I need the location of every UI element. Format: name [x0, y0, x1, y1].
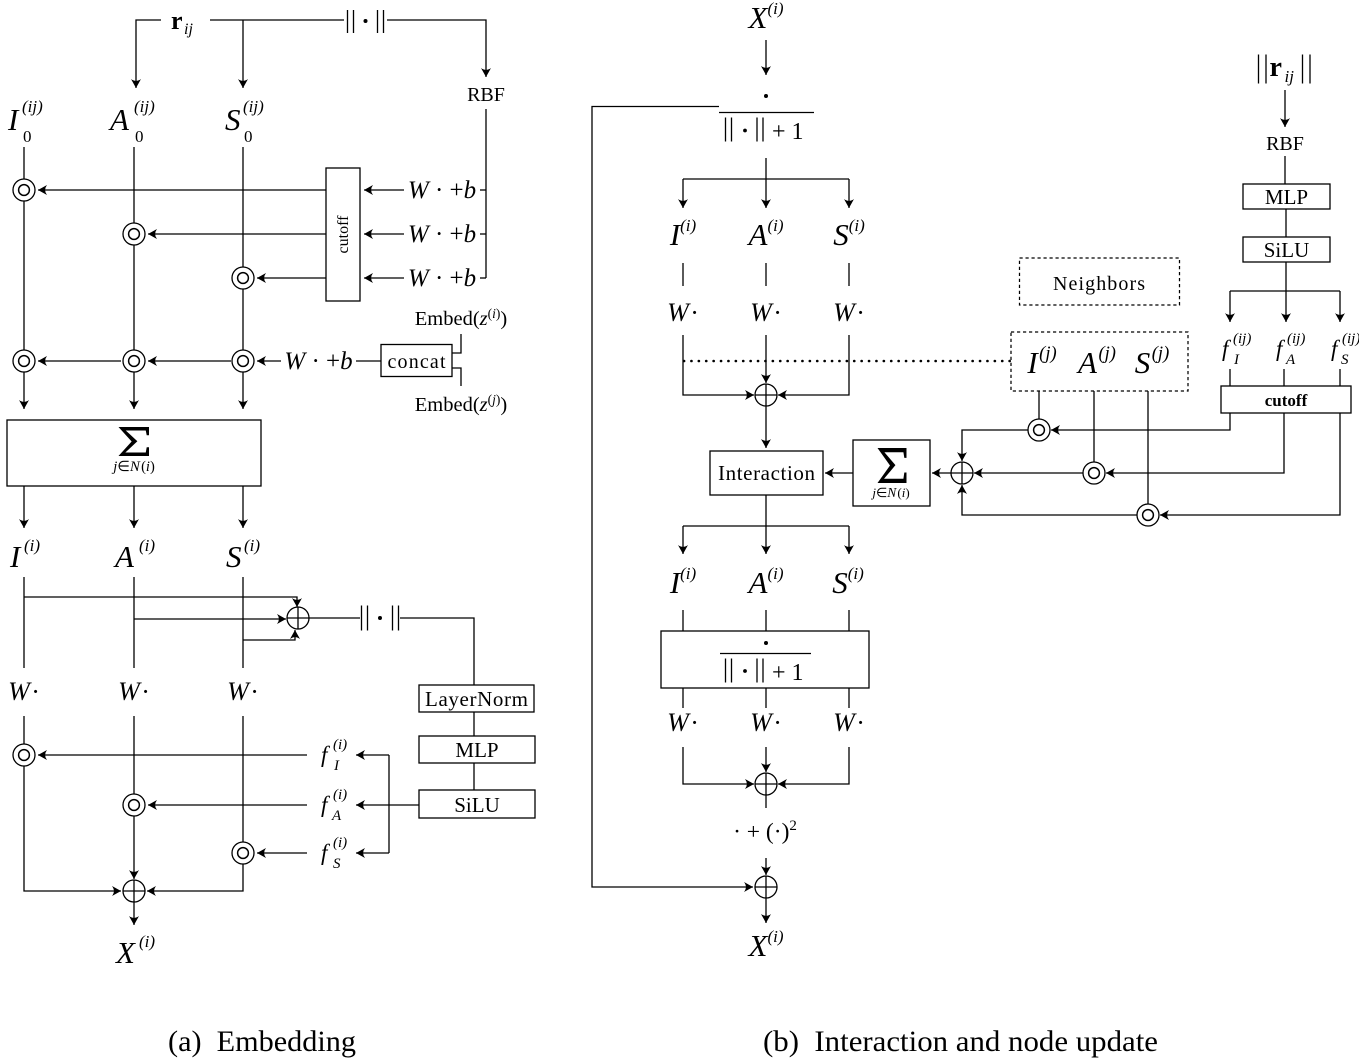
wire split2 to I: [682, 526, 684, 554]
wire cutoff to hadamard S row3: [257, 277, 326, 279]
label fI(i): [321, 737, 347, 774]
wire Wb4 to concat: [356, 360, 381, 362]
wire I b1 to plus left: [683, 335, 754, 395]
wire Wb1 to RBF line: [480, 189, 486, 191]
box LayerNorm: [419, 685, 534, 712]
box sum over neighbors: [7, 420, 261, 486]
wire Wb3 to RBF line: [480, 277, 486, 279]
wire fA to hadamard A: [148, 804, 307, 806]
plus node b1: [755, 384, 777, 406]
plus node b2: [951, 462, 973, 484]
wire cutoff gate to hadamard j3: [1160, 413, 1340, 515]
svg-text:(i): (i): [333, 737, 347, 753]
svg-text:W·: W·: [833, 708, 865, 737]
wire stub I b3: [682, 688, 684, 708]
wire feedback left long: [592, 107, 753, 888]
box cutoff: [326, 168, 360, 301]
box SiLU a: [419, 790, 535, 818]
svg-text:W·: W·: [667, 708, 699, 737]
box normalize b: [661, 631, 869, 688]
wire stub S b2: [848, 610, 850, 631]
svg-text:W·: W·: [118, 677, 150, 706]
wire S column mid: [242, 577, 244, 668]
box IAS j dashed: [1011, 332, 1188, 391]
node S0(ij) label: [225, 97, 264, 146]
wire I column bottom to plus: [24, 716, 121, 891]
wire stub I b1: [682, 263, 684, 286]
wire hadamard j2 to plus b2 right: [974, 472, 1083, 474]
svg-text:(i): (i): [244, 536, 260, 555]
fraction denominator ||.||+1: [726, 118, 764, 142]
norm symbol ||.|| mid: [362, 606, 399, 631]
box Neighbors dashed: [1020, 258, 1180, 305]
svg-text:(ij): (ij): [243, 97, 264, 116]
svg-text:0: 0: [244, 127, 253, 146]
svg-text:W·: W·: [8, 677, 40, 706]
wire r_ij to norm and RBF: [210, 19, 344, 21]
wire plus to X out: [133, 902, 135, 925]
svg-text:(ij): (ij): [22, 97, 43, 116]
wire fI to hadamard I: [38, 754, 307, 756]
svg-text:(ij): (ij): [1342, 331, 1359, 347]
label fI(ij): [1222, 331, 1251, 368]
hadamard node j2: [1083, 462, 1105, 484]
wire Wb1 to cutoff: [364, 189, 404, 191]
svg-text:SiLU: SiLU: [1264, 238, 1310, 262]
label fS(i): [321, 835, 347, 872]
dotted wire to neighbors: [684, 360, 1010, 363]
svg-text:j∈N (i): j∈N (i): [870, 485, 909, 500]
plus node bottom a: [123, 880, 145, 902]
wire S column bottom to plus: [147, 716, 243, 891]
svg-text:A: A: [331, 808, 342, 824]
wire A b1 to plus top: [765, 335, 767, 383]
plus node b4: [755, 876, 777, 898]
wire norm2 to LayerNorm: [400, 618, 474, 685]
svg-text:A: A: [1285, 352, 1296, 368]
wire split to fS: [356, 852, 389, 854]
svg-text:W·: W·: [750, 708, 782, 737]
node I0(ij) label: [7, 97, 43, 146]
svg-text:· + (·)2: · + (·)2: [733, 818, 797, 845]
box concat: [381, 345, 452, 377]
svg-text:MLP: MLP: [1265, 185, 1308, 209]
wire S b1 to plus right: [778, 335, 849, 395]
hadamard node gate I: [13, 744, 35, 766]
wire r_ij drop to S0: [242, 20, 244, 88]
wire sum to Interaction: [825, 472, 853, 474]
wire Wb2 to RBF line: [480, 233, 486, 235]
node norm r_ij label: [1259, 52, 1311, 86]
label fA(i): [321, 787, 347, 824]
svg-text:S: S: [225, 102, 241, 137]
wire stub I b2: [682, 610, 684, 631]
wire stub A b2: [765, 610, 767, 631]
hadamard node gate S: [232, 842, 254, 864]
label fA(ij): [1276, 331, 1305, 368]
svg-text:W·: W·: [750, 298, 782, 327]
box cutoff b: [1221, 386, 1351, 413]
svg-text:S: S: [226, 539, 242, 574]
node S(i) label: [226, 536, 260, 574]
wire split to I(i): [682, 179, 684, 208]
wire fraction down: [765, 158, 767, 179]
wire sum out I: [23, 486, 25, 528]
wire Ij link down: [1038, 391, 1040, 419]
svg-text:ij: ij: [1285, 67, 1295, 86]
wire stub A b1: [765, 263, 767, 286]
wire cutoff to hadamard I row1: [38, 189, 326, 191]
wire cutoff to hadamard A row2: [148, 233, 326, 235]
svg-text:W · +b: W · +b: [408, 177, 476, 204]
wire fS to hadamard S: [257, 852, 307, 854]
wire LayerNorm to MLP: [473, 712, 475, 736]
svg-text:X: X: [114, 935, 136, 970]
svg-text:0: 0: [23, 127, 32, 146]
wire X to fraction: [765, 40, 767, 75]
svg-text:Neighbors: Neighbors: [1053, 273, 1145, 295]
wire A b2 to plus3 top: [765, 747, 767, 772]
svg-text:LayerNorm: LayerNorm: [425, 687, 528, 711]
svg-text:(ij): (ij): [1287, 331, 1305, 347]
svg-text:I: I: [1233, 352, 1240, 368]
svg-text:A: A: [113, 539, 135, 574]
hadamard node row1 I: [13, 179, 35, 201]
svg-text:(i): (i): [139, 536, 155, 555]
wire I branch to plus top: [24, 597, 297, 607]
svg-text:W · +b: W · +b: [408, 221, 476, 248]
wire I b2 to plus3 left: [683, 747, 754, 784]
svg-text:I: I: [9, 539, 22, 574]
wire Wb2 to cutoff: [364, 233, 404, 235]
wire split to A(i): [765, 179, 767, 208]
wire SiLU out to split: [389, 804, 419, 806]
wire split2 to S: [848, 526, 850, 554]
hadamard node j3: [1137, 504, 1159, 526]
wire hadamard S to hadamard A row4: [148, 360, 231, 362]
wire I column to sum: [23, 147, 25, 409]
wire hadamard j3 to plus b2 bottom: [962, 485, 1137, 515]
node r_ij label: [171, 6, 193, 38]
wire stub A b3: [765, 688, 767, 708]
wire split to fS(ij): [1339, 291, 1341, 322]
wire Aj link down: [1093, 391, 1095, 462]
hadamard node row4 S: [232, 350, 254, 372]
wire A column bottom to plus: [133, 716, 135, 879]
node A(i) label: [113, 536, 155, 574]
hadamard node row3 S: [232, 267, 254, 289]
wire A column to sum: [133, 147, 135, 409]
svg-text:I: I: [7, 102, 20, 137]
wire fA stub to cutoff: [1283, 369, 1285, 386]
wire RBF to MLP: [1284, 156, 1286, 184]
svg-text:+ 1: + 1: [772, 119, 804, 145]
svg-text:W · +b: W · +b: [408, 265, 476, 292]
svg-text:j∈N (i): j∈N (i): [111, 459, 155, 475]
svg-text:(a) Embedding: (a) Embedding: [168, 1025, 356, 1058]
wire plus b2 to sum: [932, 472, 951, 474]
wire norm r to RBF: [1284, 90, 1286, 127]
wire stub S b3: [848, 688, 850, 708]
svg-text:(ij): (ij): [1233, 331, 1251, 347]
hadamard node row2 A: [123, 223, 145, 245]
fraction numerator dot: [764, 94, 768, 98]
svg-text:cutoff: cutoff: [335, 215, 352, 254]
svg-text:Interaction: Interaction: [718, 461, 816, 485]
box sum b: [853, 440, 930, 506]
svg-text:MLP: MLP: [455, 738, 498, 762]
svg-text:A: A: [108, 102, 130, 137]
wire Sj link down: [1147, 391, 1149, 504]
wire Wb3 to cutoff: [364, 277, 404, 279]
wire cutoff gate to hadamard j1: [1051, 413, 1230, 430]
svg-text:(i): (i): [333, 787, 347, 803]
box MLP b: [1243, 184, 1330, 209]
wire split bar top: [683, 178, 849, 180]
svg-text:(i): (i): [333, 835, 347, 851]
wire f split vertical: [388, 755, 390, 853]
svg-text:W·: W·: [227, 677, 259, 706]
wire S branch to plus bottom: [243, 630, 295, 640]
wire norm to RBF corner: [387, 20, 486, 77]
hadamard node gate A: [123, 794, 145, 816]
svg-text:(b) Interaction and node updat: (b) Interaction and node update: [763, 1025, 1158, 1058]
wire SiLU to f split: [1285, 262, 1287, 291]
wire A column mid: [133, 577, 135, 668]
svg-text:W · +b: W · +b: [284, 348, 352, 375]
wire plus to Interaction: [765, 406, 767, 448]
wire hadamard A to hadamard I row4: [38, 360, 121, 362]
wire A branch to plus left: [134, 618, 286, 620]
wire plus4 to X out: [765, 898, 767, 923]
label fS(ij): [1331, 331, 1359, 368]
box Interaction: [710, 451, 823, 495]
wire f split bar: [1230, 290, 1340, 292]
wire to plus4: [765, 858, 767, 875]
wire fS stub to cutoff: [1339, 369, 1341, 386]
plus node a: [287, 607, 309, 629]
norm symbol ||.|| top: [348, 10, 384, 33]
wire concat top bracket: [452, 334, 461, 353]
wire plus to norm2: [309, 617, 360, 619]
wire I column mid: [23, 577, 25, 668]
wire Interaction down split: [765, 495, 767, 526]
wire RBF down to W rows: [485, 109, 487, 278]
fraction bar: [719, 112, 814, 114]
wire sum out S: [242, 486, 244, 528]
svg-text:SiLU: SiLU: [454, 793, 500, 817]
wire split to fI: [356, 754, 389, 756]
node A0(ij) label: [108, 97, 155, 146]
wire split to S(i): [848, 179, 850, 208]
wire cutoff gate to hadamard j2: [1106, 413, 1284, 473]
svg-text:r: r: [171, 6, 183, 35]
wire split bar 2: [683, 525, 849, 527]
node X(i) out a: [114, 932, 155, 970]
wire sum out A: [133, 486, 135, 528]
svg-text:ij: ij: [184, 21, 193, 38]
svg-text:cutoff: cutoff: [1265, 391, 1308, 410]
svg-text:S: S: [333, 856, 341, 872]
svg-text:(i): (i): [24, 536, 40, 555]
wire hadamard j1 to plus b2 top: [962, 430, 1028, 461]
svg-text:RBF: RBF: [467, 84, 505, 106]
wire S column to sum: [242, 147, 244, 409]
svg-text:S: S: [1341, 352, 1349, 368]
wire r_ij left hook: [136, 20, 161, 88]
svg-text:RBF: RBF: [1266, 133, 1304, 155]
wire stub S b1: [848, 263, 850, 286]
box SiLU b: [1243, 237, 1330, 262]
hadamard node j1: [1028, 419, 1050, 441]
wire MLP to SiLU b: [1285, 209, 1287, 237]
wire split to fA: [356, 804, 389, 806]
wire split to fI(ij): [1229, 291, 1231, 322]
wire fI stub to cutoff: [1229, 369, 1231, 386]
wire MLP to SiLU: [473, 763, 475, 790]
hadamard node row4 A: [123, 350, 145, 372]
svg-text:(i): (i): [139, 932, 155, 951]
svg-text:concat: concat: [388, 351, 446, 373]
wire split to fA(ij): [1285, 291, 1287, 322]
wire split2 to A: [765, 526, 767, 554]
wire plus3 down stub: [765, 795, 767, 808]
box MLP a: [419, 736, 535, 763]
plus node b3: [755, 773, 777, 795]
svg-text:r: r: [1270, 52, 1282, 83]
wire Wb4 to hadamard S row4: [257, 360, 281, 362]
hadamard node row4 I: [13, 350, 35, 372]
wire concat bottom bracket: [452, 368, 461, 386]
svg-text:W·: W·: [833, 298, 865, 327]
svg-text:I: I: [333, 758, 340, 774]
wire S b2 to plus3 right: [778, 747, 849, 784]
svg-text:W·: W·: [667, 298, 699, 327]
svg-text:0: 0: [135, 127, 144, 146]
svg-text:(ij): (ij): [134, 97, 155, 116]
svg-text:+ 1: + 1: [772, 660, 804, 686]
node I(i) label: [9, 536, 40, 574]
